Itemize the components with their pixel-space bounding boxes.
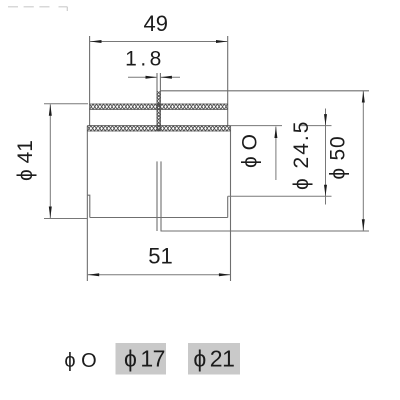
49 dim — [90, 41, 228, 43]
1.8 dim right — [160, 76, 180, 78]
phi24.5 lower arrow (down) — [324, 185, 327, 197]
svg-text:ϕ17: ϕ17 — [124, 346, 165, 372]
51 right arrow — [219, 273, 231, 276]
svg-text:ϕ O: ϕ O — [64, 350, 96, 372]
right lower face (+51 ext below) — [230, 126, 232, 281]
49 left arrow — [90, 40, 102, 43]
slot wall upper left — [156, 73, 158, 131]
1.8 left arrow — [146, 76, 158, 79]
slot wall upper right — [159, 73, 161, 131]
phi24.5 upper arrow (down) — [324, 114, 327, 126]
phi41 top arrow — [49, 104, 52, 116]
phiO arrow (up) — [274, 127, 277, 139]
phi41 ext bottom — [44, 218, 87, 220]
knurl band 2 — [87, 126, 230, 131]
part outline — [87, 36, 369, 281]
bottom face phi41 — [90, 217, 228, 219]
dimension texts — [14, 11, 350, 269]
bottom face right wall — [227, 196, 229, 217]
step bottom-left — [87, 195, 89, 217]
svg-text:51: 51 — [148, 244, 172, 269]
cropped dashed border fragment — [8, 7, 67, 11]
svg-text:ϕ21: ϕ21 — [193, 346, 234, 372]
svg-text:1.8: 1.8 — [125, 48, 165, 71]
phi41 ext top — [44, 103, 88, 105]
top edge phi50 + phi50 ext — [160, 90, 369, 92]
svg-text:ϕ 41: ϕ 41 — [14, 140, 37, 181]
1.8 right arrow — [160, 76, 172, 79]
svg-text:49: 49 — [143, 11, 167, 36]
dimension + extension lines — [44, 42, 363, 275]
phi24.5 ext top — [231, 125, 332, 127]
left upper face (+49 ext above) — [89, 36, 91, 126]
49 right arrow — [216, 40, 228, 43]
slot chevrons — [157, 91, 160, 131]
1.8 dim left — [128, 76, 157, 78]
51 dim — [88, 274, 231, 276]
right upper face (+49 ext above) — [227, 36, 229, 126]
gray box phi21 — [188, 343, 240, 375]
svg-text:ϕ 50: ϕ 50 — [327, 136, 350, 180]
phi50 dim — [362, 91, 364, 231]
slot wall lower right — [160, 161, 162, 231]
gray box phi17 — [116, 343, 167, 375]
phiO dim — [275, 127, 277, 181]
phi50 bottom arrow — [362, 219, 365, 231]
knurl band 1 — [90, 104, 228, 109]
svg-text:ϕ 24.5: ϕ 24.5 — [290, 120, 313, 190]
svg-text:ϕ O: ϕ O — [239, 134, 262, 168]
phi41 dim — [49, 104, 51, 218]
left lower face (+51 ext below) — [86, 126, 88, 281]
arrowheads — [49, 40, 365, 276]
phi41 bottom arrow — [49, 207, 52, 219]
51 left arrow — [88, 273, 100, 276]
bottom edge phi50 + phi50 ext — [161, 230, 370, 232]
phi50 top arrow — [362, 91, 365, 103]
slot wall lower left — [156, 161, 158, 231]
phi24.5 dim — [325, 109, 327, 205]
phi24.5 ext bottom — [228, 195, 332, 197]
